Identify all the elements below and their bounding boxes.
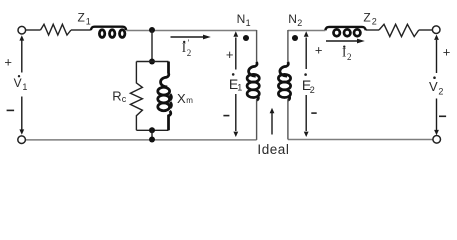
secondary winding N2 xyxy=(287,30,289,63)
terminal top-right xyxy=(432,26,440,34)
svg-text:Z: Z xyxy=(363,11,370,25)
svg-text:2: 2 xyxy=(372,17,377,27)
svg-text:V: V xyxy=(429,79,438,94)
node dot shunt bottom xyxy=(149,127,155,133)
svg-text:N: N xyxy=(237,12,246,26)
svg-text:R: R xyxy=(112,89,121,104)
svg-text:2: 2 xyxy=(347,52,352,62)
node dot top rail xyxy=(149,27,155,33)
ideal arrow xyxy=(271,112,273,135)
svg-text:1: 1 xyxy=(246,18,251,28)
emf arrow E1 (double-headed) xyxy=(235,38,237,132)
label E2 xyxy=(304,73,307,76)
wire shunt top bar xyxy=(136,61,168,63)
svg-text:Z: Z xyxy=(78,11,85,25)
wire shunt bottom bar xyxy=(136,129,168,131)
terminal top-left xyxy=(18,26,26,34)
svg-text:V: V xyxy=(14,76,22,90)
emf arrow E2 (double-headed) xyxy=(305,38,307,132)
svg-text:1: 1 xyxy=(237,83,242,93)
svg-text:X: X xyxy=(177,91,186,106)
svg-text:1: 1 xyxy=(22,82,27,92)
svg-text:1: 1 xyxy=(86,17,91,27)
wire top rail right xyxy=(288,30,325,32)
polarity dot N2 xyxy=(292,35,298,41)
resistor Z2 (series, right) xyxy=(379,24,419,36)
svg-text:+: + xyxy=(4,54,12,69)
node dot bottom rail xyxy=(149,137,155,143)
svg-text:Ideal: Ideal xyxy=(257,142,289,157)
svg-text:′: ′ xyxy=(188,38,190,48)
wire shunt bottom feed xyxy=(151,130,153,139)
polarity dot N1 xyxy=(243,35,249,41)
svg-text:2: 2 xyxy=(297,18,302,28)
minus V2 xyxy=(439,116,446,118)
voltage arrow V2 (double-headed) xyxy=(436,40,438,130)
resistor Rc (shunt) xyxy=(130,62,142,131)
voltage arrow V1 (double-headed) xyxy=(21,41,23,131)
label V2 xyxy=(433,76,436,79)
label I2 xyxy=(342,44,352,62)
minus E2 xyxy=(311,112,316,114)
node dot shunt top xyxy=(149,59,155,65)
svg-text:+: + xyxy=(226,47,234,62)
current arrow I2 xyxy=(326,40,358,42)
wire component leads top-right xyxy=(366,29,433,31)
svg-text:2: 2 xyxy=(187,48,192,58)
svg-text:N: N xyxy=(288,12,297,26)
label V1 xyxy=(18,75,20,77)
terminal bottom-right xyxy=(433,136,441,144)
label E1 xyxy=(232,73,235,76)
current arrow I2' xyxy=(171,35,211,40)
primary winding N1 xyxy=(256,30,258,63)
wire bottom rail right xyxy=(288,138,433,140)
label I2' xyxy=(182,38,192,58)
wire bottom rail left xyxy=(26,139,257,141)
wire top rail left xyxy=(126,30,256,32)
svg-text:2: 2 xyxy=(310,85,315,95)
wire component leads top-left xyxy=(26,29,91,31)
terminal bottom-left xyxy=(18,136,26,144)
svg-text:+: + xyxy=(315,43,323,58)
inductor Z1 (series, left) xyxy=(91,27,126,38)
inductor Xm (shunt) xyxy=(158,62,172,131)
inductor Z2 (series, right) xyxy=(325,27,366,36)
svg-text:c: c xyxy=(122,94,127,104)
minus V1 xyxy=(7,110,15,112)
wire feed to shunt branch xyxy=(151,30,153,62)
minus E1 xyxy=(223,115,229,117)
svg-text:m: m xyxy=(186,96,193,105)
svg-text:2: 2 xyxy=(438,86,443,96)
resistor Z1 (series, left) xyxy=(41,24,72,35)
svg-text:+: + xyxy=(443,44,451,59)
